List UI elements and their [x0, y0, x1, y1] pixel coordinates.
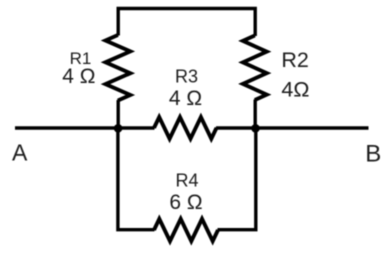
svg-text:6 Ω: 6 Ω: [169, 191, 202, 214]
wire bottom branch left (junction down to R4 left lead): [118, 128, 155, 230]
label R3: [175, 67, 198, 87]
resistor R3: [154, 117, 217, 139]
wire top rail (R1 top lead to R2 top lead): [118, 9, 255, 37]
label R4: [175, 171, 198, 191]
resistor R4: [154, 219, 218, 241]
node A terminal label: [12, 140, 28, 166]
value R3: 4 ohm: [169, 87, 202, 110]
wire right junction to terminal B: [216, 126, 369, 129]
wire R1 bottom lead to node A-junction: [116, 100, 119, 128]
wire terminal A to left junction: [15, 126, 155, 129]
value R2: 4 ohm: [281, 78, 309, 102]
svg-text:4 Ω: 4 Ω: [169, 87, 202, 110]
label R2: [281, 48, 308, 72]
label R1: [70, 49, 92, 68]
svg-text:4 Ω: 4 Ω: [62, 65, 95, 88]
node B terminal label: [365, 141, 381, 168]
svg-text:A: A: [12, 140, 28, 166]
value R1: 4 ohm: [62, 65, 95, 88]
svg-text:R3: R3: [175, 67, 198, 87]
wire bottom branch right (R4 right lead up to junction): [218, 128, 256, 230]
value R4: 6 ohm: [169, 191, 202, 214]
svg-text:4Ω: 4Ω: [281, 78, 309, 102]
svg-text:R2: R2: [281, 48, 308, 72]
resistor R2: [243, 36, 267, 101]
junction dot left: [114, 124, 123, 133]
wire R2 bottom lead to node B-junction: [253, 100, 256, 129]
svg-text:B: B: [365, 141, 381, 168]
junction dot right: [251, 124, 260, 133]
resistor R1: [106, 35, 131, 101]
svg-text:R4: R4: [175, 171, 198, 191]
